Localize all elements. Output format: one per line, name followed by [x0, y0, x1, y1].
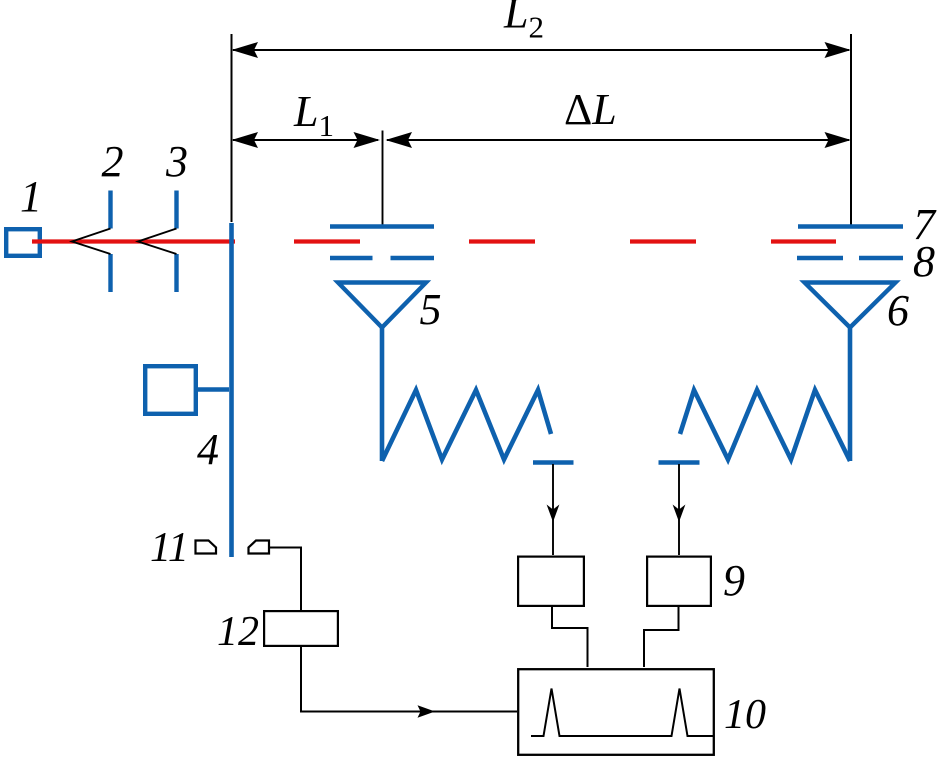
extension line right (detector 6 axis)	[850, 34, 852, 226]
aperture 3 chevron	[138, 229, 177, 255]
detector 5 dashed plate	[330, 256, 373, 260]
amplifier box left	[518, 557, 584, 606]
photodiode 11 left	[196, 541, 217, 554]
svg-text:5: 5	[420, 285, 442, 334]
multiplier cone 6	[805, 283, 896, 328]
divider zigzag right	[680, 390, 850, 461]
chopper motor box	[145, 366, 196, 414]
aperture 2 chevron	[72, 229, 111, 255]
beam (red)	[32, 239, 235, 243]
shaper box 12	[264, 611, 338, 646]
svg-text:9: 9	[723, 556, 745, 605]
anode left	[533, 460, 574, 465]
svg-text:10: 10	[724, 692, 766, 738]
signal wire left	[552, 464, 554, 555]
svg-text:3: 3	[165, 137, 188, 186]
aperture 3 upper slit	[174, 191, 178, 229]
tick / extension to detector 5	[382, 131, 384, 227]
motor link	[196, 387, 229, 391]
detector 5 grid plate	[330, 224, 434, 228]
scope trace with two pulses	[531, 689, 714, 737]
beam dash c	[630, 239, 696, 243]
wire amp right to scope	[644, 606, 679, 667]
detector 6 dashed plate	[797, 256, 843, 260]
trigger arrowhead	[418, 705, 436, 717]
multiplier cone 5	[338, 283, 426, 328]
extension line left (chopper axis)	[231, 34, 233, 222]
divider zigzag left	[382, 390, 551, 461]
detector 6 grid plate	[798, 224, 903, 228]
beam dash d	[771, 239, 836, 243]
svg-text:6: 6	[887, 286, 909, 335]
amplifier box right (9)	[647, 557, 711, 606]
beam dash a	[294, 239, 360, 243]
cone 6 stem	[848, 327, 853, 461]
signal arrowhead left	[547, 505, 560, 523]
beam dash b	[469, 239, 535, 243]
aperture 3 lower slit	[174, 254, 178, 292]
dimension line L1	[233, 139, 378, 141]
wire 11 to 12	[269, 548, 301, 611]
svg-text:2: 2	[102, 137, 124, 186]
wire 12 to scope	[301, 647, 517, 712]
wire amp left to scope	[552, 606, 588, 667]
svg-text:8: 8	[913, 237, 935, 286]
aperture 2 upper slit	[108, 191, 112, 229]
chopper 4 disc line	[229, 223, 234, 557]
ion source 1 (blue square)	[6, 229, 40, 256]
svg-text:11: 11	[150, 525, 189, 571]
svg-text:4: 4	[197, 425, 219, 474]
svg-text:1: 1	[20, 172, 42, 221]
signal arrowhead right	[673, 505, 686, 523]
svg-text:ΔL: ΔL	[564, 85, 617, 134]
dimension line delta-L	[387, 139, 849, 141]
signal wire right	[678, 464, 680, 555]
photodiode 11 right	[249, 541, 270, 554]
svg-text:12: 12	[217, 609, 259, 655]
anode right	[659, 460, 700, 465]
aperture 2 lower slit	[108, 254, 112, 292]
cone 5 stem	[380, 327, 385, 461]
dimension line L2	[233, 49, 849, 51]
oscilloscope box 10	[518, 669, 714, 755]
